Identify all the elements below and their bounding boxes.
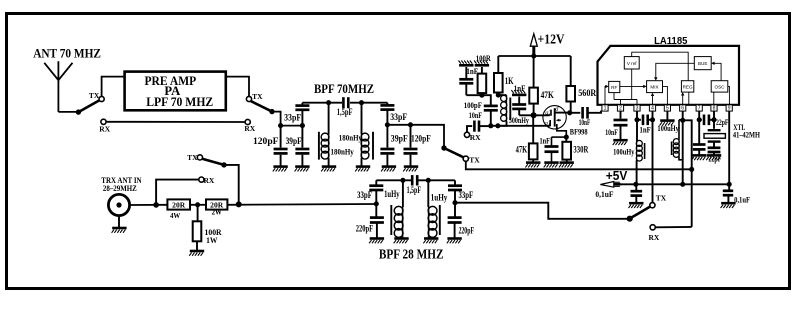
ground 100R xyxy=(190,250,204,253)
+5V feed arrow xyxy=(600,169,628,187)
svg-text:28–29MHZ: 28–29MHZ xyxy=(103,183,137,193)
node L4 top xyxy=(426,178,431,183)
svg-text:100pF: 100pF xyxy=(464,100,482,110)
capacitor 39pF shunt (BPF70 in) xyxy=(286,126,310,166)
svg-text:1K: 1K xyxy=(505,76,514,86)
pin 5 LA1185 xyxy=(664,105,670,112)
ground L2 xyxy=(356,165,370,168)
wire g2 to gate xyxy=(534,114,550,116)
IC U1 LA1185 outline xyxy=(598,35,740,105)
switch S5 RX contact xyxy=(199,176,215,185)
node 1K bottom xyxy=(496,93,501,98)
svg-text:33pF: 33pF xyxy=(284,112,302,122)
wire RX contact to 10nF xyxy=(467,126,472,132)
svg-text:OSC: OSC xyxy=(715,84,726,89)
wire node up to RX contact xyxy=(156,180,199,205)
connector TRX ANT (coax) xyxy=(108,194,129,227)
ground 0.1uF right xyxy=(721,202,735,205)
pin 2 LA1185 xyxy=(617,105,623,112)
resistor 47K (g2 upper) xyxy=(529,56,554,115)
internal line pin1-RF xyxy=(605,85,609,105)
svg-text:1uHy: 1uHy xyxy=(384,189,400,199)
antenna ANT 70 MHZ xyxy=(33,47,101,112)
node source junction xyxy=(564,135,569,140)
switch S1 antenna TX/RX - common pivot xyxy=(76,109,81,114)
wire BPF28 top rail right xyxy=(417,179,455,181)
svg-text:2W: 2W xyxy=(212,208,223,217)
svg-text:47K: 47K xyxy=(541,90,554,100)
svg-text:1nF: 1nF xyxy=(540,136,551,146)
internal line BUF-MIX xyxy=(654,63,694,80)
wire pin6 node to RX line xyxy=(683,120,692,227)
svg-text:220pF: 220pF xyxy=(459,225,475,235)
svg-text:120pF: 120pF xyxy=(253,137,279,147)
switch S1 lever xyxy=(78,100,99,112)
ground L1 xyxy=(322,165,336,168)
ground 220pF in xyxy=(370,237,384,240)
switch S2 common pivot xyxy=(269,109,274,114)
crystal XTL 41-42MHz xyxy=(704,122,760,147)
svg-text:47K: 47K xyxy=(516,145,528,155)
capacitor 10nF (drain coupling) xyxy=(570,107,591,127)
switch S2 TX contact xyxy=(246,92,263,102)
ground 1nF source xyxy=(544,161,558,164)
svg-text:41–42MH: 41–42MH xyxy=(733,130,760,140)
node bus BPF70 output xyxy=(387,124,410,126)
resistor 100R (bias) xyxy=(476,53,492,95)
ground 0.1uF left xyxy=(629,202,643,205)
wire pin9 down xyxy=(728,111,730,190)
svg-text:1: 1 xyxy=(604,106,607,112)
node TX line junction xyxy=(689,167,694,172)
svg-text:+12V: +12V xyxy=(538,32,565,47)
wire pin4 down to TX contact xyxy=(652,111,654,203)
node pin7 junction xyxy=(698,111,700,120)
switch S1 RX contact xyxy=(99,119,110,133)
svg-text:39pF: 39pF xyxy=(286,136,302,146)
wire bias node horizontal xyxy=(466,95,491,104)
svg-text:33pF: 33pF xyxy=(357,190,372,200)
wire BPF70 top rail left xyxy=(302,102,342,104)
internal line Vref down xyxy=(631,69,633,100)
node pin8 junction xyxy=(713,111,715,129)
node drain junction xyxy=(567,110,572,115)
pin 4 LA1185 xyxy=(649,105,655,112)
pin 7 LA1185 xyxy=(696,105,702,112)
resistor 1K xyxy=(494,56,514,95)
block REG xyxy=(681,81,693,92)
svg-text:RF: RF xyxy=(611,85,617,90)
block PRE AMP / PA / LPF 70 MHZ xyxy=(125,72,226,111)
svg-text:10nF: 10nF xyxy=(579,117,591,127)
svg-text:1W: 1W xyxy=(206,235,218,245)
svg-text:RX: RX xyxy=(649,233,660,242)
inductor L1 180nHy (BPF70 left tank) xyxy=(319,103,329,166)
internal line pin4-MIX xyxy=(651,93,654,105)
inductor L3 1uHy (BPF28 left) xyxy=(384,180,403,237)
node 100pF junction xyxy=(488,123,493,128)
svg-text:1,5pF: 1,5pF xyxy=(407,185,422,195)
internal line MIX-pin5 xyxy=(663,86,668,104)
wire g1 to gate electrode xyxy=(498,125,550,127)
capacitor 220pF shunt (BPF28 in) xyxy=(356,204,384,238)
wire S2 common to BPF70 input node xyxy=(272,112,281,126)
wire attenuator output to BPF28 xyxy=(227,203,376,206)
capacitor 120pF shunt (BPF70 in) xyxy=(253,126,288,166)
svg-text:TX: TX xyxy=(89,91,100,100)
node attenuator tap xyxy=(190,204,206,206)
internal line OSC-pin8 xyxy=(713,92,715,105)
svg-text:180nHy: 180nHy xyxy=(331,146,355,156)
capacitor 22pF (below crystal) xyxy=(708,148,722,164)
capacitor 0.1uF (pin9) xyxy=(723,191,750,205)
svg-text:TX: TX xyxy=(469,156,480,165)
switch S5 common pivot xyxy=(221,162,226,167)
svg-text:1nF: 1nF xyxy=(640,124,651,134)
wire TX contact to PRE AMP input xyxy=(102,77,125,97)
svg-text:10nF: 10nF xyxy=(469,110,482,120)
block BUF xyxy=(694,57,711,70)
resistor 330R (source) xyxy=(562,137,588,162)
switch S3 common pivot xyxy=(441,145,446,150)
wire RX contact to pin6 line xyxy=(655,226,691,228)
wire antenna to switch S1 common xyxy=(58,111,78,113)
svg-text:22pF: 22pF xyxy=(716,117,728,127)
internal line Vref-REG xyxy=(632,52,689,80)
switch S4 TX contact xyxy=(650,194,667,208)
svg-text:RX: RX xyxy=(244,124,255,133)
wire +5V bus xyxy=(621,183,731,185)
svg-text:100uHy: 100uHy xyxy=(613,147,635,157)
wire PRE AMP output to switch S2 TX contact xyxy=(226,77,249,97)
svg-text:330R: 330R xyxy=(573,145,588,155)
svg-text:ANT 70 MHZ: ANT 70 MHZ xyxy=(33,47,101,61)
capacitor 1.5pF series (BPF28) xyxy=(407,175,422,195)
wire 10nF to g1 node xyxy=(479,125,491,127)
svg-text:RX: RX xyxy=(470,133,481,142)
capacitor 220pF shunt (BPF28 out) xyxy=(448,203,475,238)
wire connector to attenuator xyxy=(130,204,168,206)
capacitor 1nF (pin3-pin4) xyxy=(637,115,653,135)
wire RX bus between S1 and S2 RX contacts xyxy=(106,121,245,123)
switch S5 TX contact xyxy=(187,153,202,162)
svg-text:LPF 70 MHZ: LPF 70 MHZ xyxy=(146,95,213,109)
capacitor 120pF shunt (BPF70 out) xyxy=(404,125,432,166)
node g2 junction xyxy=(531,112,537,118)
wire TX line from S3 to pin6 node line xyxy=(467,168,692,170)
internal line REG down xyxy=(688,92,690,105)
node tank L1 top xyxy=(326,100,331,105)
svg-text:0,1uF: 0,1uF xyxy=(595,189,613,199)
svg-text:g2: g2 xyxy=(545,110,552,117)
svg-text:LA1185: LA1185 xyxy=(654,35,687,47)
switch S4 RX contact xyxy=(649,225,660,242)
switch S2 RX contact xyxy=(244,119,255,133)
node pin3 junction xyxy=(636,111,638,120)
capacitor 22pF shunt (pin7) xyxy=(693,120,706,155)
svg-text:1nF: 1nF xyxy=(466,66,478,76)
pin 3 LA1185 xyxy=(634,105,640,112)
svg-text:V ref: V ref xyxy=(627,61,637,66)
inductor 100uHy (pin3 feed) xyxy=(613,120,645,185)
wire 10nF to LA1185 pin1 xyxy=(588,111,602,113)
svg-text:220pF: 220pF xyxy=(356,224,374,234)
capacitor 33pF series (BPF28 out) xyxy=(448,180,474,202)
ground 120pF out xyxy=(404,165,418,168)
inductor L4 1uHy (BPF28 right) xyxy=(428,180,448,237)
ground inverted (1nF g2) xyxy=(512,94,526,97)
switch S4 common pivot xyxy=(627,216,633,222)
svg-text:33pF: 33pF xyxy=(390,112,407,122)
+12V arrow xyxy=(530,32,564,57)
pin 9 LA1185 xyxy=(726,105,732,112)
switch S3 RX contact xyxy=(464,132,481,142)
resistor 20R 4W (attenuator series) xyxy=(167,199,190,220)
transistor Q1 BF998 dual-gate MOSFET xyxy=(543,106,588,137)
wire BPF28 top rail left xyxy=(376,179,411,181)
node pin6 junction xyxy=(682,111,684,185)
capacitor 1nF (g2 decouple) xyxy=(512,83,533,115)
ground L4 xyxy=(424,237,438,240)
node pin4 junction xyxy=(650,117,655,122)
node bus BPF70 input xyxy=(281,125,304,127)
ground 39pF out xyxy=(382,165,396,168)
wire BPF70 output to switch S3 common xyxy=(411,125,445,147)
capacitor 39pF shunt (BPF70 out) xyxy=(380,125,408,166)
node +12V to 47K xyxy=(531,53,536,58)
svg-text:180nHy: 180nHy xyxy=(339,133,363,143)
capacitor 100pF (g1 node to bias) xyxy=(464,100,498,126)
node BPF28 output xyxy=(452,200,457,205)
ground L3 xyxy=(394,237,408,240)
inductor 100uHy (pin6) xyxy=(657,120,682,160)
ground pin5 xyxy=(660,111,675,126)
capacitor 1.5pF series (BPF70) xyxy=(337,97,353,117)
switch S5 lever xyxy=(202,159,224,165)
resistor 20R 2W (attenuator series) xyxy=(206,199,227,216)
capacitor 0.1uF (+5V left) xyxy=(595,184,642,202)
svg-text:500nHy: 500nHy xyxy=(509,115,530,125)
ground 22pF crystal xyxy=(707,154,721,157)
pin 8 LA1185 xyxy=(711,105,717,112)
resistor 100R 1W (attenuator shunt) xyxy=(193,205,223,250)
wire BPF28 output to switch S4 common xyxy=(455,203,630,219)
svg-text:RX: RX xyxy=(204,176,215,185)
svg-text:33pF: 33pF xyxy=(459,190,474,200)
internal line OSC-BUF xyxy=(711,62,721,81)
svg-text:560R: 560R xyxy=(578,88,597,98)
ground pin2 10nF xyxy=(613,139,627,142)
capacitor 10nF (pin2 decouple) xyxy=(605,111,627,139)
node L3 top xyxy=(400,178,405,183)
ground 330R xyxy=(560,161,574,164)
svg-text:BPF 28 MHZ: BPF 28 MHZ xyxy=(379,247,444,262)
capacitor 33pF series (BPF28 in) xyxy=(357,180,383,204)
wire S3 TX contact down to 28MHz TX line xyxy=(465,161,468,169)
node tank L2 top xyxy=(359,100,364,105)
node +5V right end xyxy=(727,182,732,187)
ground 39pF xyxy=(295,165,309,168)
wire BPF70 top rail right xyxy=(350,102,387,104)
node attenuator input xyxy=(153,202,159,208)
inductor 500nHy xyxy=(498,95,530,126)
switch S2 lever xyxy=(251,101,272,112)
ground 47K lower xyxy=(526,161,540,164)
svg-text:TX: TX xyxy=(252,92,263,101)
capacitor 1nF (source bypass) xyxy=(540,136,567,162)
capacitor 33pF series (BPF70 in) xyxy=(284,103,309,126)
capacitor 1nF (bias decouple) xyxy=(459,66,478,95)
node BPF28 input xyxy=(374,201,379,206)
svg-text:BPF 70MHZ: BPF 70MHZ xyxy=(314,81,374,96)
svg-text:BF998: BF998 xyxy=(570,126,588,136)
capacitor 33pF series (BPF70 out) xyxy=(380,103,407,125)
svg-text:BUE: BUE xyxy=(698,61,707,66)
svg-text:0,1uF: 0,1uF xyxy=(734,195,750,205)
switch S3 lever xyxy=(444,148,464,157)
block RF xyxy=(609,81,620,92)
capacitor 10nF series (RX to g1) xyxy=(469,110,482,132)
resistor 560R (drain load) xyxy=(566,56,596,113)
svg-text:4W: 4W xyxy=(170,211,181,220)
internal line bottom rail to pin2 pin3 xyxy=(614,93,637,105)
switch S4 lever xyxy=(632,207,651,218)
svg-text:REG: REG xyxy=(683,84,693,89)
block OSC xyxy=(711,81,728,92)
svg-text:RX: RX xyxy=(99,124,110,133)
ground connector xyxy=(112,227,126,230)
node +5V pin6 xyxy=(680,182,685,187)
switch S1 TX contact xyxy=(89,91,104,102)
svg-text:+5V: +5V xyxy=(606,169,628,183)
block V ref xyxy=(624,57,639,69)
pin 6 LA1185 xyxy=(680,105,686,112)
internal line pin6-REG xyxy=(681,92,684,105)
node +5V to 0.1uF/coil xyxy=(633,182,638,187)
wire g1 line xyxy=(491,125,498,127)
capacitor 22pF (pin7-pin8) xyxy=(699,115,728,128)
svg-text:TX: TX xyxy=(656,194,667,203)
switch S3 TX contact xyxy=(463,156,480,165)
resistor 47K (g2 lower) xyxy=(516,115,538,162)
svg-text:10nF: 10nF xyxy=(605,127,617,137)
svg-text:TX: TX xyxy=(187,153,198,162)
svg-text:1uHy: 1uHy xyxy=(431,192,448,202)
+12V supply rail xyxy=(498,55,570,57)
ground 22pF pin7 xyxy=(692,154,706,157)
node coil junction g1 xyxy=(495,123,500,128)
pin 1 LA1185 xyxy=(602,105,608,112)
ground 220pF out xyxy=(447,237,461,240)
svg-text:MIX: MIX xyxy=(650,85,658,90)
svg-text:1,5pF: 1,5pF xyxy=(337,107,353,117)
ground inverted (1nF bias) xyxy=(459,64,473,67)
ground inverted (100R bias) xyxy=(475,64,489,67)
node output junction xyxy=(236,201,242,207)
ground 120pF xyxy=(273,165,287,168)
internal line OSC-pin9 xyxy=(728,86,730,104)
svg-text:20R: 20R xyxy=(172,201,186,210)
internal line RF-MIX xyxy=(620,85,647,88)
svg-text:39pF: 39pF xyxy=(391,133,408,143)
svg-text:100uHy: 100uHy xyxy=(657,123,679,133)
svg-text:120pF: 120pF xyxy=(411,133,431,143)
block MIX xyxy=(647,81,663,93)
inductor L2 180nHy (BPF70 right tank) xyxy=(361,103,373,166)
label TRX ANT IN 28-29MHZ xyxy=(101,175,142,193)
wire S5 common to output node xyxy=(224,165,239,204)
